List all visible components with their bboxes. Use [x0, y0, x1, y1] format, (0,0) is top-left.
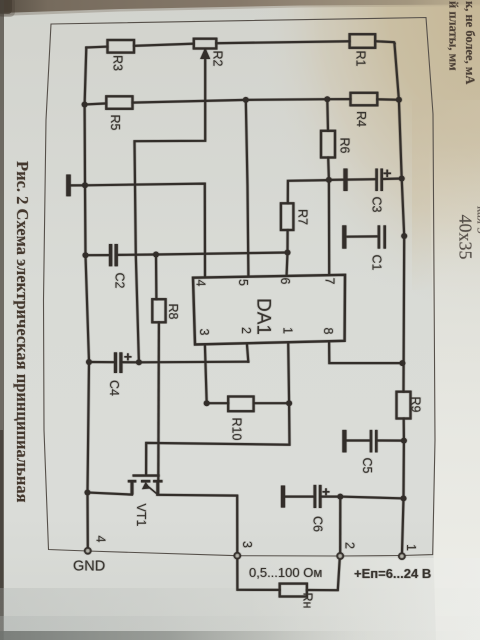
- wire: node to C3 left plate: [329, 178, 376, 181]
- IC DA1 pin number labels: [194, 278, 337, 336]
- junction C6 / terminal 2: [337, 494, 343, 500]
- capacitor C5: [344, 430, 376, 453]
- terminal 1: [399, 553, 405, 559]
- wire: C6 right lead to node: [322, 496, 340, 498]
- wire: right vertical bus (+): [394, 43, 404, 392]
- schematic frame border: [44, 18, 436, 557]
- wire: terminal 3 to Rn below frame: [237, 559, 279, 590]
- potentiometer R2 body: [194, 39, 217, 49]
- junction row / right bus: [396, 97, 402, 103]
- junction left bus / C4: [86, 359, 92, 365]
- wire: R5 to R4 row: [133, 99, 351, 103]
- junction C5 / right bus: [401, 438, 407, 444]
- wire: R1 right lead to right bus corner: [375, 41, 394, 43]
- wire: C5 right lead: [378, 439, 404, 441]
- wire: pin 8 jog to right bus: [329, 342, 402, 364]
- wire: R4 right lead: [377, 98, 399, 101]
- capacitor C1: [344, 225, 384, 248]
- junction left bus / ground: [82, 182, 88, 188]
- junction row / pin 5: [243, 97, 249, 103]
- transistor VT1 (MOSFET): [128, 476, 163, 495]
- dark sliver left edge: [0, 0, 4, 640]
- wire: Rn to terminal 2 riser: [307, 559, 340, 590]
- junction left bus / R5: [82, 102, 88, 108]
- terminal 3: [234, 553, 240, 559]
- junction node R6/R7/C3/pin7: [326, 177, 332, 183]
- junction pin1 / R10: [286, 400, 292, 406]
- wire: C6 node to right bus: [340, 497, 403, 499]
- wire: C4 right lead to pin 2: [123, 361, 249, 364]
- ground symbol main: [66, 175, 71, 197]
- resistor R5: [106, 96, 132, 109]
- wire: pin 5 vertical from row to DA1: [246, 100, 249, 276]
- junction pin3 / R10: [204, 400, 210, 406]
- op-amp/timer DA1 box: [193, 275, 345, 345]
- whitish right-bottom sheet area: [429, 145, 480, 640]
- wire: pin 7 vertical: [328, 180, 331, 275]
- wire: R7 bottom lead: [287, 230, 288, 275]
- wire: VT1 drain to left bus: [88, 493, 133, 495]
- wire: R10 left lead: [207, 402, 229, 404]
- resistor R4: [351, 93, 378, 106]
- wire: R2 wiper jog down: [135, 51, 206, 363]
- wire: R8 bottom lead down to VT1: [157, 322, 160, 480]
- wire: C2 left lead: [86, 254, 109, 256]
- wire: C5 ground stub to plates: [347, 439, 370, 441]
- wire: C2 right lead to pin6 node: [118, 253, 288, 255]
- bottom edge shading: [0, 588, 480, 640]
- wire: VT1 source to terminal 3: [157, 495, 237, 553]
- wire: pin 3 vertical down to R10: [205, 345, 207, 404]
- wire: R3 to R2: [134, 44, 194, 46]
- junction left bus / C2: [83, 252, 89, 258]
- junction C6 / right bus: [401, 495, 407, 501]
- capacitor C6 (polarized): [283, 485, 330, 508]
- resistor R6: [321, 131, 335, 158]
- junction C2 / R7 / pin 6: [285, 250, 291, 256]
- component labels rotated: [94, 51, 423, 609]
- junction C2 / R8: [153, 252, 159, 258]
- wire: left vertical bus: [85, 48, 89, 548]
- junction C4 / wiper: [136, 359, 142, 365]
- junction row / R6: [324, 96, 330, 102]
- wire: pin1 node down and left to gate: [146, 403, 289, 475]
- capacitor C2: [111, 244, 117, 266]
- junction left bus / VT1 drain: [85, 490, 91, 496]
- resistor R10: [228, 397, 253, 412]
- terminal 4 GND: [85, 548, 91, 554]
- junction pin8 / right bus: [399, 360, 405, 366]
- capacitor C4 (polarized): [116, 352, 132, 373]
- resistor R8: [152, 299, 165, 322]
- wire: R3 left lead: [86, 45, 107, 48]
- terminal 2: [337, 553, 343, 559]
- wire: R6 bottom lead to node: [327, 158, 330, 180]
- wire: right bus below R9 to terminal 1: [402, 419, 404, 553]
- wire: C3 right lead: [383, 177, 402, 180]
- dark strip along top edge: [0, 0, 480, 16]
- wire: C6 node down to terminal 2: [339, 497, 341, 553]
- wire: node to R7 top jog: [288, 180, 329, 203]
- capacitor C3 (polarized): [346, 169, 392, 192]
- beige top-right area: [250, 0, 480, 320]
- wire: pin 2 vertical: [247, 344, 248, 362]
- wire: R2 to R1 top wire: [216, 41, 349, 43]
- wire: R6 top lead: [326, 99, 329, 131]
- wire: pin 1 vertical: [287, 343, 290, 404]
- junction C3 / right bus: [399, 176, 405, 182]
- wire: C6 ground stub to plates: [285, 496, 313, 498]
- junction C1 / right bus: [401, 233, 407, 239]
- resistor R7: [281, 203, 294, 230]
- resistor R1: [350, 34, 376, 48]
- wire: C4 left lead: [89, 361, 114, 363]
- wire: R8 top lead: [155, 255, 158, 300]
- wire: ground to pin 4: [70, 184, 205, 276]
- wire: R5 left lead: [85, 103, 107, 104]
- resistor R9: [397, 392, 411, 419]
- potentiometer R2 wiper arrow: [200, 48, 210, 60]
- resistor Rn load: [280, 584, 307, 597]
- wire: R10 right lead: [254, 402, 290, 404]
- resistor R3: [108, 40, 135, 53]
